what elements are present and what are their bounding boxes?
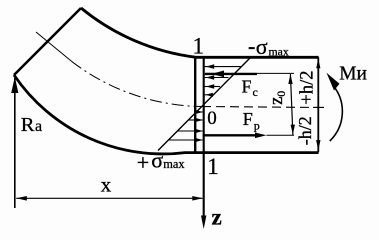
+h/2 dimension arrows on right edge: [316, 59, 320, 68]
svg-text:max: max: [163, 157, 185, 171]
beam outer (upper) curve and top edge of straight part: [81, 8, 319, 57]
svg-text:-: -: [248, 33, 255, 58]
tension stress arrow 3: [178, 130, 203, 132]
svg-text:-h/2: -h/2: [295, 116, 315, 145]
x dimension left arrowhead: [16, 196, 26, 201]
svg-text:a: a: [35, 118, 42, 135]
svg-text:p: p: [254, 118, 260, 132]
svg-text:x: x: [101, 173, 112, 197]
x dimension right arrowhead: [192, 196, 202, 201]
section line 1-1 / z axis: [203, 57, 205, 217]
reaction Ra arrow line: [14, 78, 16, 208]
compression stress arrow 1: [205, 66, 242, 68]
tension stress arrow 4: [169, 139, 203, 141]
svg-text:R: R: [21, 114, 35, 136]
bending moment arc: [330, 86, 343, 141]
Fp extension line to z0 dimension: [267, 134, 295, 136]
right end edge of straight part: [317, 57, 319, 152]
force Fp arrow (thick, pointing right): [203, 134, 255, 136]
Ra arrowhead: [11, 77, 18, 93]
beam left edge: [14, 8, 81, 75]
centerline dash-dot curve: [72, 61, 203, 106]
svg-text:F: F: [243, 109, 253, 129]
force Fc arrow (thick, pointing left): [205, 73, 257, 75]
svg-text:F: F: [242, 76, 252, 96]
svg-text:c: c: [253, 85, 258, 99]
svg-text:0: 0: [207, 108, 217, 129]
stress profile diagonal: [158, 58, 250, 151]
svg-text:z: z: [212, 205, 222, 230]
svg-text:max: max: [269, 45, 289, 59]
svg-text:Ми: Ми: [339, 63, 367, 84]
Fc extension line to z0 dimension: [257, 72, 294, 74]
svg-text:σ: σ: [151, 148, 163, 173]
svg-text:σ: σ: [256, 34, 268, 59]
moment arc arrowhead: [327, 73, 340, 91]
x dimension line: [16, 197, 203, 199]
z0 dimension line: [290, 74, 293, 135]
svg-text:+: +: [137, 150, 149, 175]
z axis arrowhead: [201, 216, 206, 230]
tension stress arrow 2: [189, 119, 203, 121]
mid tick at right edge: [313, 106, 324, 108]
tension stress arrow 1: [197, 111, 203, 113]
svg-text:1: 1: [193, 33, 205, 58]
compression stress arrow 2: [205, 77, 229, 79]
cut face line at end of curved part: [194, 56, 196, 152]
svg-text:+h/2: +h/2: [298, 71, 318, 105]
beam inner (lower) curve and bottom edge of straight part: [14, 75, 319, 154]
centerline first long dash (crosses left edge): [36, 32, 72, 61]
compression stress arrow 4: [205, 94, 213, 96]
svg-text:1: 1: [207, 154, 219, 179]
-h/2 dimension arrows on right edge: [316, 140, 320, 150]
neutral axis dashed line: [202, 107, 324, 108]
compression stress arrow 3: [205, 86, 220, 88]
